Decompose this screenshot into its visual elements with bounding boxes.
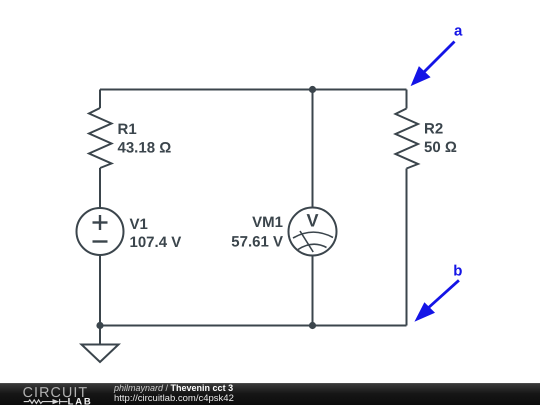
label VM1 value 57.61 V (231, 234, 283, 251)
CircuitLab logo (0, 384, 100, 407)
label V1 name (130, 216, 148, 233)
node a arrow (411, 42, 455, 87)
voltmeter VM1 (289, 208, 337, 256)
node b label (453, 263, 462, 280)
svg-text:b: b (453, 263, 462, 280)
svg-text:107.4 V: 107.4 V (130, 234, 182, 251)
label V1 value 107.4 V (130, 234, 182, 251)
svg-text:V1: V1 (130, 216, 148, 233)
voltmeter V glyph (306, 211, 318, 231)
svg-text:R2: R2 (424, 121, 443, 138)
voltage source V1 (77, 208, 124, 255)
svg-text:V: V (306, 211, 318, 231)
label VM1 name (252, 214, 283, 231)
wire R2 bottom lead (vertical) (406, 169, 408, 326)
wire top net (horizontal, node a) (100, 89, 407, 91)
wire V1 bottom lead (vertical) (99, 255, 101, 326)
svg-text:R1: R1 (118, 121, 137, 138)
node b arrow (414, 280, 459, 321)
wire bottom net (horizontal, node b) (100, 325, 407, 327)
wire R2 top lead (vertical) (406, 90, 408, 109)
svg-text:50 Ω: 50 Ω (424, 139, 457, 156)
ground (82, 326, 119, 363)
wire VM1 top lead (312, 90, 314, 209)
node junction top (VM1/top wire) (309, 86, 316, 93)
label R1 value 43.18 ohm (118, 140, 172, 157)
wire R1 bottom lead (vertical to V1) (99, 168, 101, 208)
node junction bottom (VM1/bottom wire) (309, 322, 316, 329)
node junction bottom-left (ground tap) (96, 322, 103, 329)
wire R1 top lead (vertical) (99, 90, 101, 109)
svg-text:a: a (454, 23, 463, 40)
svg-text:LAB: LAB (68, 396, 93, 407)
resistor R1 (89, 108, 112, 168)
resistor R2 (396, 109, 419, 169)
svg-text:VM1: VM1 (252, 214, 283, 231)
wire VM1 bottom lead (312, 256, 314, 326)
label R2 name (424, 121, 443, 138)
svg-text:43.18 Ω: 43.18 Ω (118, 140, 172, 157)
node a label (454, 23, 463, 40)
label R1 name (118, 121, 137, 138)
label R2 value 50 ohm (424, 139, 457, 156)
svg-text:57.61 V: 57.61 V (231, 234, 283, 251)
